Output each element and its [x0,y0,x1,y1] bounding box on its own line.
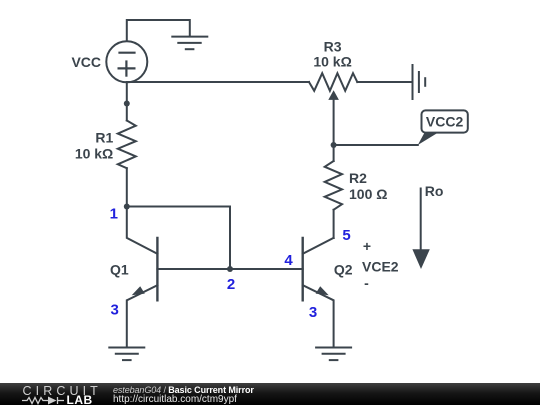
wire VCC node to R3 [127,81,309,83]
ground G3 under Q1 [109,348,144,361]
svg-text:Ro: Ro [425,183,444,199]
wire R2 bottom to Q2 collector [333,210,335,238]
resistor R3 [309,73,357,91]
node dot VCC [124,101,130,107]
wire R3 to ground [357,81,412,83]
svg-text:Q1: Q1 [110,262,129,278]
svg-text:3: 3 [111,302,119,319]
svg-text:-: - [364,275,369,291]
wire VCC top to ground [127,20,190,42]
ground G4 under Q2 [316,348,351,361]
wiper arrow into R3 [333,99,335,145]
svg-text:4: 4 [284,252,293,269]
svg-text:2: 2 [227,276,235,293]
svg-text:100 Ω: 100 Ω [349,186,387,202]
wire node to R2 [333,145,335,161]
voltage source VCC V1 [106,41,147,82]
svg-text:LAB: LAB [67,393,93,405]
resistor R1 [118,121,136,169]
ground G2 rotated right [413,65,426,99]
wire R1 bottom to node 1 [126,168,128,206]
svg-text:VCE2: VCE2 [362,259,399,275]
wire VCC bottom down to R1 [126,82,128,120]
svg-text:R3: R3 [324,39,342,55]
node dot 2 [227,266,233,272]
node dot VCC2/R2 [331,142,337,148]
transistor Q2 [303,238,334,348]
flag VCC2 [418,133,438,145]
svg-text:R2: R2 [349,170,367,186]
wire node1 to node2 [127,207,230,270]
svg-text:R1: R1 [95,129,113,145]
svg-text:VCC2: VCC2 [426,113,464,129]
svg-text:VCC: VCC [71,54,101,70]
logo resistor glyph [22,397,64,404]
svg-text:10 kΩ: 10 kΩ [75,146,113,162]
svg-text:Q2: Q2 [334,262,353,278]
svg-text:http://circuitlab.com/ctm9ypf: http://circuitlab.com/ctm9ypf [113,394,237,405]
logo diode glyph [48,397,57,405]
svg-text:1: 1 [110,206,118,223]
svg-text:5: 5 [342,227,350,244]
svg-text:3: 3 [309,304,317,321]
svg-text:10 kΩ: 10 kΩ [313,53,351,69]
node dot 1 [124,204,130,210]
wire node to VCC2 flag [334,144,418,146]
resistor R2 [325,161,342,210]
ground G1 top [172,37,207,50]
svg-text:+: + [363,238,371,254]
wire node2 to Q2 base [230,268,303,270]
transistor Q1 [127,207,230,348]
arrow Ro [420,189,422,251]
